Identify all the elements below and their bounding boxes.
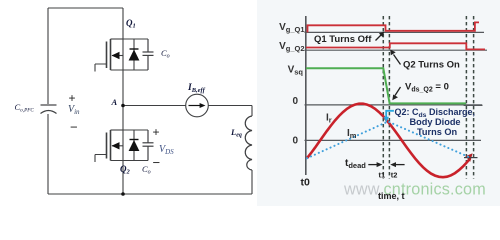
Q2 channel bar xyxy=(110,130,112,161)
wire left rail upper xyxy=(47,8,49,104)
Q1 gate bar xyxy=(106,42,108,69)
svg-text:Co: Co xyxy=(142,164,151,176)
Q1 source lead / bottom rail xyxy=(111,69,149,71)
svg-text:Q1 Turns Off: Q1 Turns Off xyxy=(314,34,372,45)
Q1 drain lead xyxy=(111,38,124,40)
trace Vsq (green) xyxy=(306,68,466,103)
wire node A to current source xyxy=(123,105,186,107)
Q2 source lead / bottom rail xyxy=(111,160,149,162)
capacitor Co (Q2) xyxy=(143,130,154,161)
svg-text:t0: t0 xyxy=(301,177,310,189)
Q2 drain lead xyxy=(111,129,124,131)
junction dot bottom xyxy=(121,192,125,196)
Q2 gate lead xyxy=(95,155,107,163)
baseline Vg_Q1 xyxy=(305,31,485,33)
diode D1 wire xyxy=(133,39,135,70)
Q1 body arrow xyxy=(112,52,120,59)
Q1 body lead xyxy=(112,55,123,57)
svg-text:www.cntronics.com: www.cntronics.com xyxy=(343,181,486,199)
diode D2 cathode bar xyxy=(130,139,139,141)
svg-text:0: 0 xyxy=(292,136,298,147)
svg-text:Body Diode: Body Diode xyxy=(410,117,461,127)
dashed line t4 xyxy=(473,16,475,179)
capacitor Co (Q1) xyxy=(143,39,154,70)
svg-text:IB,eff: IB,eff xyxy=(187,83,206,94)
svg-text:Q2 Turns On: Q2 Turns On xyxy=(403,60,460,71)
diode D1 cathode bar xyxy=(130,48,139,50)
wire left rail lower xyxy=(47,114,49,194)
blue leader arrow to crossing xyxy=(386,111,394,118)
svg-text:Q2: Q2 xyxy=(120,164,131,176)
diode D2 wire xyxy=(133,130,135,161)
svg-text:Co: Co xyxy=(161,48,170,60)
dashed line t3 xyxy=(465,16,467,179)
trace Vg_Q2 (red) xyxy=(306,43,485,49)
dashed line t1 xyxy=(382,16,384,179)
trace Vg_Q1 (red) xyxy=(308,22,480,32)
svg-text:Leq: Leq xyxy=(230,127,242,139)
Q2 body arrow xyxy=(112,142,120,149)
node A xyxy=(121,104,125,108)
svg-text:VDS: VDS xyxy=(159,144,174,156)
baseline Vsq zero axis xyxy=(305,104,483,106)
svg-text:+: + xyxy=(69,91,76,105)
Q1 channel bar xyxy=(110,39,112,70)
trace Ir sine (red) xyxy=(307,104,470,178)
svg-text:Vin: Vin xyxy=(68,104,80,116)
svg-text:Q1: Q1 xyxy=(126,18,136,30)
wire current source to right rail xyxy=(208,105,252,107)
dashed line t2 xyxy=(388,16,390,179)
wire mid vertical (Q1 drain to bottom) xyxy=(122,8,124,194)
svg-text:t1: t1 xyxy=(379,171,386,180)
wire right rail upper xyxy=(251,106,253,117)
wire bottom xyxy=(48,193,252,195)
transistor Q2 xyxy=(95,130,148,162)
Ir end arrowhead xyxy=(466,153,473,162)
svg-text:time, t: time, t xyxy=(378,191,405,201)
wire right rail lower xyxy=(251,170,253,194)
diode D1 triangle xyxy=(129,50,140,61)
Q2 top rail xyxy=(123,129,148,131)
svg-text:−: − xyxy=(70,120,78,135)
waveform panel background xyxy=(257,0,500,206)
Vsq grey segment after t3 xyxy=(464,104,483,106)
current source IB,eff circle xyxy=(186,94,209,117)
transistor Q1 xyxy=(95,39,148,72)
Q2 body lead xyxy=(112,145,123,147)
trace Im dotted (blue) xyxy=(307,122,470,159)
Q1 top rail xyxy=(123,38,148,40)
svg-text:−: − xyxy=(153,155,161,170)
capacitor Co,PFC xyxy=(41,105,57,114)
inductor Leq coil xyxy=(245,116,252,170)
svg-text:A: A xyxy=(111,97,118,107)
svg-text:0: 0 xyxy=(292,96,298,107)
svg-text:+: + xyxy=(153,125,160,139)
svg-text:Turns On: Turns On xyxy=(417,127,458,137)
baseline Vg_Q2 xyxy=(305,49,488,51)
svg-text:Co,PFC: Co,PFC xyxy=(15,102,35,114)
current source arrow xyxy=(189,105,201,107)
baseline current zero axis xyxy=(305,139,482,141)
wire top xyxy=(48,7,123,9)
y axis xyxy=(305,16,307,175)
Ir end tick xyxy=(464,157,478,159)
Q2 gate bar xyxy=(106,133,108,159)
svg-text:t2: t2 xyxy=(391,171,398,180)
diode D2 triangle xyxy=(129,140,140,151)
Q1 gate lead xyxy=(95,64,107,72)
